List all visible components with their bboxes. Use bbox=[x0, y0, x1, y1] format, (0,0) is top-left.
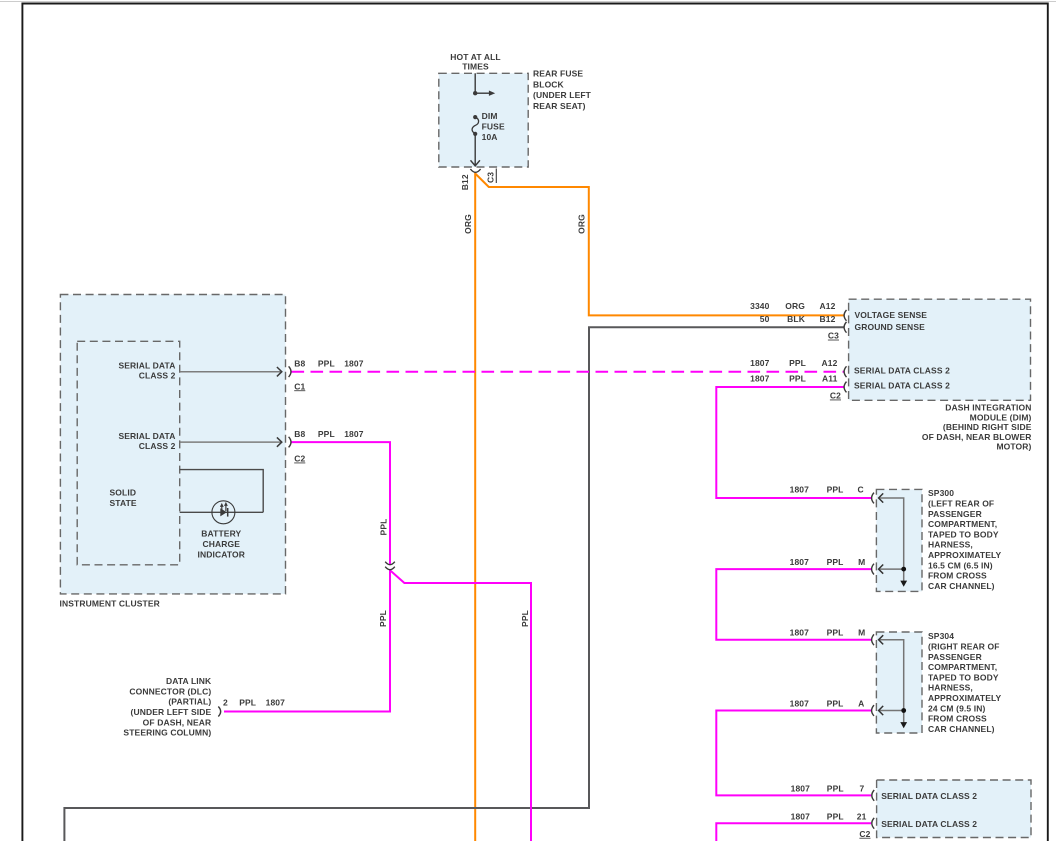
fuse DIM FUSE 10A bbox=[473, 115, 477, 119]
svg-text:STEERING COLUMN): STEERING COLUMN) bbox=[123, 728, 211, 738]
svg-text:PPL: PPL bbox=[318, 429, 335, 439]
svg-text:2: 2 bbox=[223, 697, 228, 707]
svg-text:7: 7 bbox=[860, 784, 865, 794]
svg-text:SERIAL DATA CLASS 2: SERIAL DATA CLASS 2 bbox=[854, 380, 950, 390]
svg-text:(UNDER LEFT SIDE: (UNDER LEFT SIDE bbox=[131, 707, 212, 717]
splice SP304 box bbox=[876, 632, 922, 733]
svg-text:ORG: ORG bbox=[463, 214, 473, 234]
svg-text:REAR SEAT): REAR SEAT) bbox=[533, 101, 586, 111]
svg-text:PASSENGER: PASSENGER bbox=[928, 652, 982, 662]
wire PPL 1807: branch from inline connector down right side bbox=[390, 570, 531, 841]
svg-text:PPL: PPL bbox=[378, 610, 388, 627]
svg-text:BLOCK: BLOCK bbox=[533, 79, 565, 89]
svg-text:C3: C3 bbox=[486, 172, 496, 183]
svg-text:APPROXIMATELY: APPROXIMATELY bbox=[928, 693, 1002, 703]
svg-text:1807: 1807 bbox=[344, 358, 364, 368]
svg-text:CONNECTOR (DLC): CONNECTOR (DLC) bbox=[129, 686, 211, 696]
connector arc DIM serial data pin A11 bbox=[844, 382, 846, 393]
svg-text:(UNDER LEFT: (UNDER LEFT bbox=[533, 90, 592, 100]
connector arc DIM serial data pin A12 bbox=[844, 366, 846, 377]
svg-text:DIM: DIM bbox=[482, 111, 498, 121]
svg-text:PPL: PPL bbox=[827, 628, 844, 638]
svg-text:C1: C1 bbox=[294, 381, 305, 391]
svg-text:CLASS 2: CLASS 2 bbox=[139, 441, 176, 451]
svg-text:B8: B8 bbox=[294, 429, 305, 439]
svg-text:OF DASH, NEAR: OF DASH, NEAR bbox=[143, 717, 212, 727]
splice SP300 internal bus bbox=[880, 498, 904, 582]
wire ORG: branch to DIM voltage sense A12 bbox=[475, 174, 843, 316]
svg-text:INSTRUMENT CLUSTER: INSTRUMENT CLUSTER bbox=[60, 599, 160, 609]
wire BLK 50: DIM ground sense to bottom left bbox=[64, 327, 843, 841]
svg-text:PASSENGER: PASSENGER bbox=[928, 509, 982, 519]
wire: solid state to battery charge indicator bbox=[180, 470, 264, 513]
svg-text:1807: 1807 bbox=[266, 697, 286, 707]
svg-text:CLASS 2: CLASS 2 bbox=[139, 371, 176, 381]
splice SP300 box bbox=[876, 489, 922, 591]
svg-text:M: M bbox=[858, 557, 865, 567]
svg-text:B12: B12 bbox=[820, 314, 836, 324]
svg-text:SERIAL DATA CLASS 2: SERIAL DATA CLASS 2 bbox=[881, 791, 977, 801]
svg-text:B8: B8 bbox=[294, 358, 305, 368]
svg-text:1807: 1807 bbox=[344, 429, 364, 439]
tap arrow in fuse block bbox=[475, 92, 489, 94]
svg-text:FROM CROSS: FROM CROSS bbox=[928, 714, 987, 724]
svg-text:PPL: PPL bbox=[827, 699, 844, 709]
svg-text:1807: 1807 bbox=[790, 628, 810, 638]
svg-text:MOTOR): MOTOR) bbox=[996, 442, 1031, 452]
svg-text:PPL: PPL bbox=[827, 811, 844, 821]
inline connector on PPL wire below cluster bbox=[385, 562, 395, 565]
wire: fuse block feed from hot at all times bbox=[474, 73, 476, 93]
svg-text:OF DASH, NEAR BLOWER: OF DASH, NEAR BLOWER bbox=[922, 432, 1032, 442]
battery charge indicator lamp bbox=[212, 501, 235, 524]
svg-text:INDICATOR: INDICATOR bbox=[198, 550, 246, 560]
svg-text:STATE: STATE bbox=[110, 498, 137, 508]
cluster serial data class 2 output arrow C2 bbox=[180, 441, 282, 443]
wire: fuse down to block exit arrow bbox=[474, 134, 476, 166]
svg-text:FROM CROSS: FROM CROSS bbox=[928, 571, 987, 581]
rear fuse block (under left rear seat) bbox=[439, 73, 528, 167]
svg-text:ORG: ORG bbox=[785, 301, 805, 311]
svg-text:SERIAL DATA: SERIAL DATA bbox=[118, 360, 175, 370]
svg-text:M: M bbox=[858, 628, 865, 638]
svg-text:ORG: ORG bbox=[577, 214, 587, 234]
wire PPL 1807: DIM A11 to splice SP300 pin C bbox=[716, 387, 871, 498]
splice SP304 internal bus bbox=[880, 640, 904, 723]
svg-text:(RIGHT REAR OF: (RIGHT REAR OF bbox=[928, 642, 1000, 652]
svg-text:SERIAL DATA: SERIAL DATA bbox=[118, 431, 175, 441]
svg-text:PPL: PPL bbox=[789, 374, 806, 384]
svg-text:HOT AT ALL: HOT AT ALL bbox=[450, 52, 500, 62]
svg-text:PPL: PPL bbox=[827, 557, 844, 567]
svg-text:CAR CHANNEL): CAR CHANNEL) bbox=[928, 581, 995, 591]
svg-text:PPL: PPL bbox=[789, 358, 806, 368]
svg-text:PPL: PPL bbox=[827, 784, 844, 794]
svg-text:CAR CHANNEL): CAR CHANNEL) bbox=[928, 724, 995, 734]
wire PPL 1807: inline connector down to DLC pin 2 bbox=[224, 570, 390, 712]
svg-text:PPL: PPL bbox=[379, 519, 389, 536]
svg-text:COMPARTMENT,: COMPARTMENT, bbox=[928, 662, 997, 672]
connector arc SP304 pin M bbox=[872, 634, 874, 645]
svg-text:C2: C2 bbox=[294, 454, 305, 464]
svg-text:C2: C2 bbox=[859, 829, 870, 839]
svg-text:SERIAL DATA CLASS 2: SERIAL DATA CLASS 2 bbox=[881, 819, 977, 829]
svg-text:(LEFT REAR OF: (LEFT REAR OF bbox=[928, 499, 994, 509]
svg-text:21: 21 bbox=[857, 811, 867, 821]
svg-text:SOLID: SOLID bbox=[110, 488, 137, 498]
svg-text:HARNESS,: HARNESS, bbox=[928, 540, 973, 550]
wire PPL 1807: cluster C2 down to inline connector bbox=[292, 442, 391, 564]
svg-text:HARNESS,: HARNESS, bbox=[928, 683, 973, 693]
svg-text:A11: A11 bbox=[822, 374, 838, 384]
svg-text:1807: 1807 bbox=[790, 485, 810, 495]
svg-text:BLK: BLK bbox=[787, 314, 806, 324]
svg-text:A12: A12 bbox=[820, 301, 836, 311]
connector arc SP304 pin A bbox=[872, 705, 874, 716]
svg-text:PPL: PPL bbox=[239, 697, 256, 707]
svg-text:1807: 1807 bbox=[750, 374, 770, 384]
connector arc DIM ground sense pin B12 bbox=[844, 322, 846, 333]
svg-text:APPROXIMATELY: APPROXIMATELY bbox=[928, 550, 1002, 560]
svg-text:BATTERY: BATTERY bbox=[201, 529, 241, 539]
wire ORG: fuse block output down the page bbox=[474, 173, 476, 841]
svg-text:(PARTIAL): (PARTIAL) bbox=[168, 697, 211, 707]
svg-text:B12: B12 bbox=[460, 174, 470, 190]
wire PPL 1807: SP304 pin A to serial data module pin 7 bbox=[716, 711, 871, 796]
connector arc DIM voltage sense pin A12 bbox=[844, 310, 846, 321]
svg-text:1807: 1807 bbox=[791, 784, 811, 794]
junction dot in fuse block bbox=[473, 91, 477, 95]
serial data class 2 module box bbox=[877, 780, 1031, 838]
wire PPL 1807: serial data module pin 21 down off page bbox=[716, 823, 871, 841]
svg-text:SERIAL DATA CLASS 2: SERIAL DATA CLASS 2 bbox=[854, 366, 950, 376]
svg-text:FUSE: FUSE bbox=[482, 122, 505, 132]
svg-text:TAPED TO BODY: TAPED TO BODY bbox=[928, 672, 999, 682]
svg-text:1807: 1807 bbox=[790, 557, 810, 567]
connector arc SP300 pin C bbox=[872, 493, 874, 504]
svg-text:VOLTAGE SENSE: VOLTAGE SENSE bbox=[855, 310, 928, 320]
svg-text:C2: C2 bbox=[830, 391, 841, 401]
dash integration module DIM box bbox=[849, 299, 1031, 400]
cluster serial data class 2 output arrow C1 bbox=[180, 371, 282, 373]
svg-text:REAR FUSE: REAR FUSE bbox=[533, 69, 583, 79]
svg-text:PPL: PPL bbox=[520, 610, 530, 627]
svg-text:16.5 CM (6.5 IN): 16.5 CM (6.5 IN) bbox=[928, 560, 993, 570]
instrument cluster box bbox=[60, 295, 285, 594]
connector arc at DLC pin 2 bbox=[218, 707, 220, 717]
svg-text:TIMES: TIMES bbox=[462, 62, 489, 72]
svg-text:GROUND SENSE: GROUND SENSE bbox=[855, 322, 926, 332]
svg-text:10A: 10A bbox=[482, 132, 498, 142]
svg-text:24 CM (9.5 IN): 24 CM (9.5 IN) bbox=[928, 703, 985, 713]
svg-text:A: A bbox=[858, 699, 864, 709]
connector arc serial data module pin 7 bbox=[872, 790, 874, 801]
wire PPL 1807 dashed: cluster C1 to DIM A12 serial data bbox=[292, 371, 844, 373]
connector arc serial data module pin 21 bbox=[872, 818, 874, 829]
connector arc SP300 pin M bbox=[872, 564, 874, 575]
svg-text:DATA LINK: DATA LINK bbox=[166, 676, 212, 686]
svg-text:MODULE (DIM): MODULE (DIM) bbox=[970, 412, 1032, 422]
svg-text:1807: 1807 bbox=[750, 358, 770, 368]
svg-text:1807: 1807 bbox=[791, 811, 811, 821]
svg-text:SP304: SP304 bbox=[928, 631, 954, 641]
svg-text:DASH INTEGRATION: DASH INTEGRATION bbox=[945, 403, 1031, 413]
svg-text:(BEHIND RIGHT SIDE: (BEHIND RIGHT SIDE bbox=[943, 422, 1032, 432]
wire PPL 1807: SP300 pin M to SP304 pin M bbox=[716, 569, 871, 640]
svg-text:C3: C3 bbox=[828, 331, 839, 341]
svg-text:CHARGE: CHARGE bbox=[203, 539, 241, 549]
svg-text:A12: A12 bbox=[822, 358, 838, 368]
svg-text:SP300: SP300 bbox=[928, 488, 954, 498]
connector C3 pin B12 arc below fuse block bbox=[470, 169, 480, 172]
instrument cluster inner solid-state box bbox=[77, 341, 180, 565]
svg-text:1807: 1807 bbox=[790, 699, 810, 709]
svg-text:3340: 3340 bbox=[750, 301, 770, 311]
svg-text:PPL: PPL bbox=[318, 358, 335, 368]
svg-text:50: 50 bbox=[760, 314, 770, 324]
svg-text:PPL: PPL bbox=[827, 485, 844, 495]
svg-text:TAPED TO BODY: TAPED TO BODY bbox=[928, 529, 999, 539]
svg-text:COMPARTMENT,: COMPARTMENT, bbox=[928, 519, 997, 529]
svg-text:C: C bbox=[858, 485, 864, 495]
